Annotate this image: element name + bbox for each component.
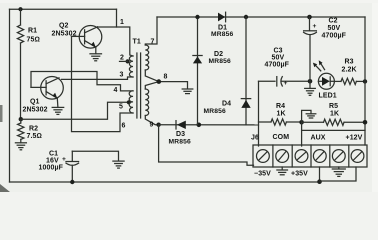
svg-text:MR856: MR856 bbox=[209, 58, 231, 65]
diode D2 MR856 bbox=[193, 51, 231, 65]
svg-text:R1: R1 bbox=[28, 28, 37, 35]
node: R1 top junction bbox=[18, 7, 22, 11]
capacitor C1 16V 1000uF bbox=[39, 151, 79, 183]
scan smudge left edge bbox=[0, 105, 3, 122]
node: D2/D3 junction bbox=[197, 123, 202, 128]
svg-text:+35V: +35V bbox=[291, 171, 308, 178]
ground below C2 junction bbox=[305, 81, 316, 95]
svg-text:C1: C1 bbox=[49, 151, 58, 158]
T1 core bbox=[136, 53, 138, 118]
svg-text:+: + bbox=[284, 80, 288, 87]
node: R5/right rail dot bbox=[363, 120, 368, 125]
paper background bbox=[0, 0, 378, 192]
resistor R3 2.2K bbox=[334, 59, 365, 85]
wire: pin 9 down to terminal block bbox=[159, 125, 254, 166]
scan smudge bottom-left bbox=[0, 184, 10, 192]
wire: center junction to small ground bbox=[302, 110, 311, 122]
svg-text:C3: C3 bbox=[274, 48, 283, 55]
svg-text:+: + bbox=[62, 156, 66, 163]
svg-text:3: 3 bbox=[120, 72, 124, 79]
wire: bracket over AUX bbox=[302, 129, 365, 131]
svg-text:75Ω: 75Ω bbox=[27, 37, 40, 44]
wire: screw 6 to bottom rail bbox=[320, 167, 356, 181]
terminal strip J6 bbox=[251, 134, 367, 167]
svg-text:16V: 16V bbox=[46, 158, 59, 165]
ground at Q1 emitter bbox=[52, 107, 64, 114]
svg-text:1000µF: 1000µF bbox=[39, 165, 64, 172]
svg-text:+: + bbox=[313, 23, 317, 30]
T1 primary top-left winding bbox=[129, 56, 133, 77]
svg-text:9: 9 bbox=[150, 122, 154, 129]
wire: pin 9 lead bbox=[145, 116, 158, 125]
wire: top +12V rail bbox=[10, 8, 117, 10]
svg-text:6: 6 bbox=[122, 123, 126, 130]
wire: pin 7 to top-right rail bbox=[145, 17, 157, 45]
wire: D2 vertical bbox=[197, 17, 199, 125]
wire: Q2 collector to transformer pin 1/2 bbox=[98, 27, 134, 56]
ground below screw 5 bbox=[332, 167, 345, 176]
svg-text:8: 8 bbox=[164, 74, 168, 81]
ground at pin 8 bbox=[182, 89, 193, 94]
node: pin 2 dot bbox=[126, 59, 130, 63]
node: bottom rail dot bbox=[317, 179, 322, 184]
wire: D3 line bbox=[159, 124, 259, 126]
node: pin 8 dot bbox=[157, 79, 162, 84]
ground at Q2 emitter bbox=[90, 54, 102, 61]
wire: C1 top to small ground bbox=[72, 151, 118, 161]
node: C2/LED/ground junction bbox=[308, 79, 313, 84]
svg-text:AUX: AUX bbox=[311, 135, 326, 142]
wire: pin 8 junction to ground bbox=[145, 70, 159, 82]
resistor R2 7.5ohm bbox=[18, 119, 42, 142]
svg-text:MR856: MR856 bbox=[204, 108, 226, 115]
svg-text:MR856: MR856 bbox=[169, 139, 191, 146]
wire: Q1 base loop to pin 4 bbox=[31, 72, 133, 91]
node: pin 9 dot bbox=[156, 123, 160, 127]
svg-text:LED1: LED1 bbox=[319, 93, 337, 100]
svg-text:−35V: −35V bbox=[254, 171, 271, 178]
wire: R4-R5 divider line bbox=[259, 121, 272, 123]
ground right of C1 bbox=[113, 161, 124, 168]
wire: screw 4 to bottom rail bbox=[319, 167, 321, 182]
wire: C3 horizontal line bbox=[259, 80, 276, 82]
LED1 bbox=[313, 60, 337, 99]
screw terminal 6 bbox=[351, 150, 364, 163]
svg-text:7: 7 bbox=[151, 39, 155, 46]
svg-text:4: 4 bbox=[114, 87, 118, 94]
svg-text:R2: R2 bbox=[29, 126, 38, 133]
svg-text:Q2: Q2 bbox=[59, 23, 69, 30]
svg-text:2: 2 bbox=[120, 55, 124, 62]
transistor Q2 2N5302 bbox=[52, 23, 102, 49]
svg-text:J6: J6 bbox=[251, 135, 259, 142]
screw terminal 5 bbox=[332, 150, 345, 163]
diode D3 MR856 bbox=[169, 121, 191, 146]
wire: +12V drop to collector node, pin 1 bbox=[116, 9, 118, 27]
svg-text:Q1: Q1 bbox=[30, 99, 40, 106]
ground at divider center bbox=[306, 114, 316, 118]
svg-text:C2: C2 bbox=[329, 18, 338, 25]
wire: +35V top rail bbox=[157, 16, 365, 18]
svg-text:D4: D4 bbox=[222, 101, 231, 108]
transformer T1 bbox=[129, 39, 149, 119]
wire: pin 5 to R1/R2 junction bbox=[21, 102, 129, 119]
svg-text:MR856: MR856 bbox=[211, 31, 233, 38]
screw terminal 3 bbox=[295, 150, 308, 163]
diode D4 MR856 bbox=[204, 99, 251, 115]
ground below R2 bbox=[15, 143, 26, 150]
svg-text:50V: 50V bbox=[272, 55, 285, 62]
svg-text:D3: D3 bbox=[176, 131, 185, 138]
resistor R1 75ohm bbox=[17, 9, 40, 119]
svg-text:7.5Ω: 7.5Ω bbox=[27, 133, 43, 140]
wire: -35V vertical (C3 left lead to J6 screw 1) bbox=[258, 81, 260, 146]
svg-text:2.2K: 2.2K bbox=[342, 67, 357, 74]
screw terminal 2 bbox=[276, 150, 289, 163]
ground below screw 2 bbox=[277, 167, 288, 175]
wire: pin 2 stub bbox=[120, 60, 128, 62]
diode D1 MR856 bbox=[211, 12, 233, 38]
resistor R5 1K bbox=[302, 103, 365, 125]
svg-text:R3: R3 bbox=[345, 59, 354, 66]
resistor R4 1K bbox=[271, 103, 302, 125]
screw terminal 4 bbox=[313, 150, 326, 163]
svg-text:R4: R4 bbox=[276, 103, 285, 110]
wire: bottom rail bbox=[10, 181, 320, 183]
wire: Q1 emitter to ground bbox=[56, 98, 59, 107]
node: R4/R5 center junction bbox=[299, 120, 304, 125]
svg-text:1K: 1K bbox=[330, 111, 339, 118]
wire: left rail bbox=[9, 9, 11, 182]
svg-text:5: 5 bbox=[119, 104, 123, 111]
svg-text:50V: 50V bbox=[328, 25, 341, 32]
T1 feedback lower-left winding bbox=[129, 91, 133, 113]
wire: center junction to J6 screw 3 bbox=[301, 122, 303, 146]
wire: Q2 emitter to ground bbox=[95, 47, 97, 53]
node: R1/R2/pin5 junction bbox=[19, 117, 23, 121]
svg-text:2N5302: 2N5302 bbox=[52, 31, 77, 38]
wire: Q1 collector to pin 3 bbox=[62, 77, 134, 79]
wire: right +35V rail bbox=[364, 17, 366, 145]
svg-text:T1: T1 bbox=[133, 39, 141, 46]
svg-text:2N5302: 2N5302 bbox=[23, 107, 48, 114]
node: C1 bottom rail dot bbox=[70, 180, 74, 184]
node: D2 top rail dot bbox=[195, 15, 199, 19]
node: R3/right rail dot bbox=[363, 79, 367, 83]
wire: Q2 base drop to pin 6 bbox=[72, 36, 134, 131]
node: C2 top rail dot bbox=[307, 15, 312, 20]
capacitor C3 50V 4700uF bbox=[265, 48, 290, 88]
svg-text:+12V: +12V bbox=[346, 135, 363, 142]
T1 secondary lower-right winding bbox=[145, 89, 148, 116]
svg-text:D2: D2 bbox=[214, 51, 223, 58]
svg-text:4700µF: 4700µF bbox=[322, 33, 347, 40]
node: D4 top rail dot bbox=[244, 15, 248, 19]
svg-text:1: 1 bbox=[120, 19, 124, 26]
node: pin 5 dot bbox=[127, 100, 131, 104]
wire: D4 vertical bbox=[245, 17, 247, 125]
capacitor C2 50V 4700uF bbox=[304, 17, 347, 81]
svg-text:4700µF: 4700µF bbox=[265, 62, 290, 69]
screw terminal 1 bbox=[257, 150, 270, 163]
svg-text:R5: R5 bbox=[329, 103, 338, 110]
svg-text:1K: 1K bbox=[277, 111, 286, 118]
T1 secondary upper-right winding bbox=[145, 45, 148, 70]
svg-text:COM: COM bbox=[273, 134, 290, 141]
transistor Q1 2N5302 bbox=[23, 77, 64, 114]
